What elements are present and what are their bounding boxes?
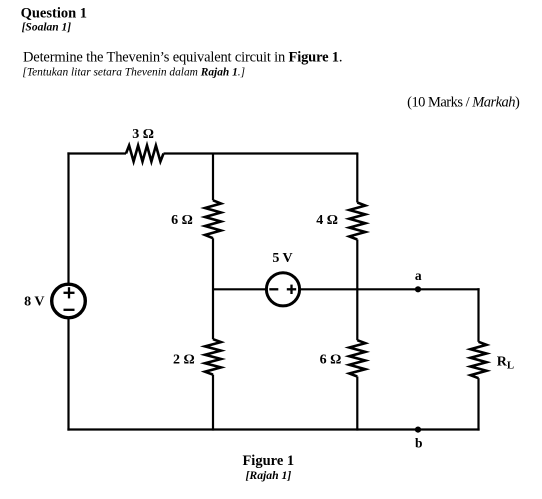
svg-text:4 Ω: 4 Ω	[316, 213, 338, 228]
svg-text:Question 1: Question 1	[21, 5, 87, 21]
svg-text:5 V: 5 V	[272, 251, 292, 266]
svg-text:6 Ω: 6 Ω	[320, 352, 342, 367]
svg-text:6 Ω: 6 Ω	[171, 213, 193, 228]
svg-text:3 Ω: 3 Ω	[132, 127, 154, 142]
svg-text:[Soalan 1]: [Soalan 1]	[22, 21, 72, 33]
svg-text:RL: RL	[497, 355, 514, 372]
svg-text:(10 Marks / Markah): (10 Marks / Markah)	[407, 94, 520, 110]
svg-text:Figure 1: Figure 1	[242, 453, 294, 469]
svg-text:[Tentukan litar setara Theveni: [Tentukan litar setara Thevenin dalam Ra…	[22, 66, 245, 78]
svg-text:b: b	[415, 436, 423, 451]
svg-text:8 V: 8 V	[24, 295, 44, 310]
svg-text:Determine the Thevenin’s equiv: Determine the Thevenin’s equivalent circ…	[23, 50, 342, 66]
svg-text:a: a	[415, 268, 422, 283]
svg-text:[Rajah 1]: [Rajah 1]	[246, 469, 292, 482]
svg-text:2 Ω: 2 Ω	[173, 352, 195, 367]
